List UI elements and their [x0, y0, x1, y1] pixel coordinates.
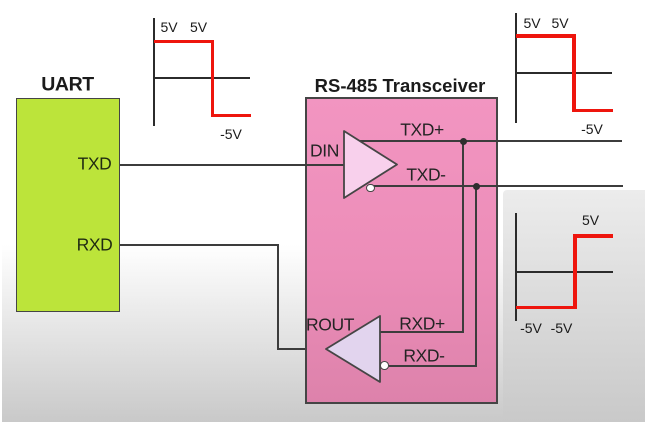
waveform1 red trace high segment: [154, 40, 214, 44]
waveform1 label -5V: [220, 126, 242, 142]
pin label DIN: [310, 141, 339, 162]
waveform3 label 5V: [582, 212, 599, 228]
wire DIN inside block: [305, 164, 345, 166]
receiver inversion bubble: [380, 361, 389, 370]
wire ROUT horizontal into receiver: [277, 348, 327, 350]
pin label TXD+: [400, 120, 444, 141]
waveform3 red trace low segment: [516, 306, 577, 310]
waveform1 horizontal axis: [154, 77, 250, 79]
wire RXD vertical segment: [277, 244, 279, 351]
receiver buffer triangle ROUT: [322, 312, 384, 386]
junction dot TXD-: [473, 183, 480, 190]
pin label TXD-: [406, 165, 445, 186]
waveform1 red trace low segment: [211, 114, 251, 118]
waveform1 vertical axis: [153, 18, 155, 126]
wire TXD from UART to DIN: [119, 164, 344, 166]
waveform2 red trace falling edge: [572, 34, 576, 112]
driver inversion bubble: [366, 184, 375, 193]
RS-485 transceiver block: [305, 97, 498, 404]
pin label RXD-: [403, 345, 444, 366]
waveform3 label -5V left: [520, 320, 542, 336]
UART block: [16, 98, 120, 312]
wire vertical TXD- to RXD-: [475, 185, 477, 367]
pin label ROUT: [306, 315, 354, 336]
waveform3 horizontal axis: [515, 271, 613, 273]
waveform1 label 5V left: [160, 19, 177, 35]
waveform2 vertical axis: [515, 13, 517, 123]
waveform3 label -5V right: [551, 320, 573, 336]
waveform2 red trace high segment: [516, 34, 576, 38]
waveform3 vertical axis: [515, 213, 517, 321]
wire RXD- into receiver: [389, 365, 477, 367]
waveform2 label 5V left: [523, 15, 540, 31]
waveform3 red trace high segment: [573, 234, 613, 238]
junction dot TXD+: [460, 138, 467, 145]
pin label RXD: [77, 234, 113, 255]
wire vertical TXD+ to RXD+: [462, 140, 464, 333]
wire TXD+ line: [360, 140, 622, 142]
gray panel behind lower-right waveform: [503, 190, 645, 422]
label RS-485 Transceiver: [315, 75, 486, 97]
wire TXD- line: [374, 185, 623, 187]
label UART: [41, 73, 94, 96]
wire RXD horizontal from UART: [119, 244, 279, 246]
waveform2 red trace low segment: [572, 109, 613, 113]
waveform2 label -5V: [581, 121, 603, 137]
waveform1 label 5V right: [190, 19, 207, 35]
waveform2 horizontal axis: [515, 72, 612, 74]
waveform3 red trace rising edge: [573, 234, 577, 309]
waveform1 red trace falling edge: [211, 40, 215, 118]
pin label TXD: [78, 154, 112, 175]
wire RXD+ into receiver: [380, 331, 462, 333]
waveform2 label 5V right: [551, 15, 568, 31]
driver buffer triangle DIN: [340, 127, 402, 203]
pin label RXD+: [399, 314, 445, 335]
